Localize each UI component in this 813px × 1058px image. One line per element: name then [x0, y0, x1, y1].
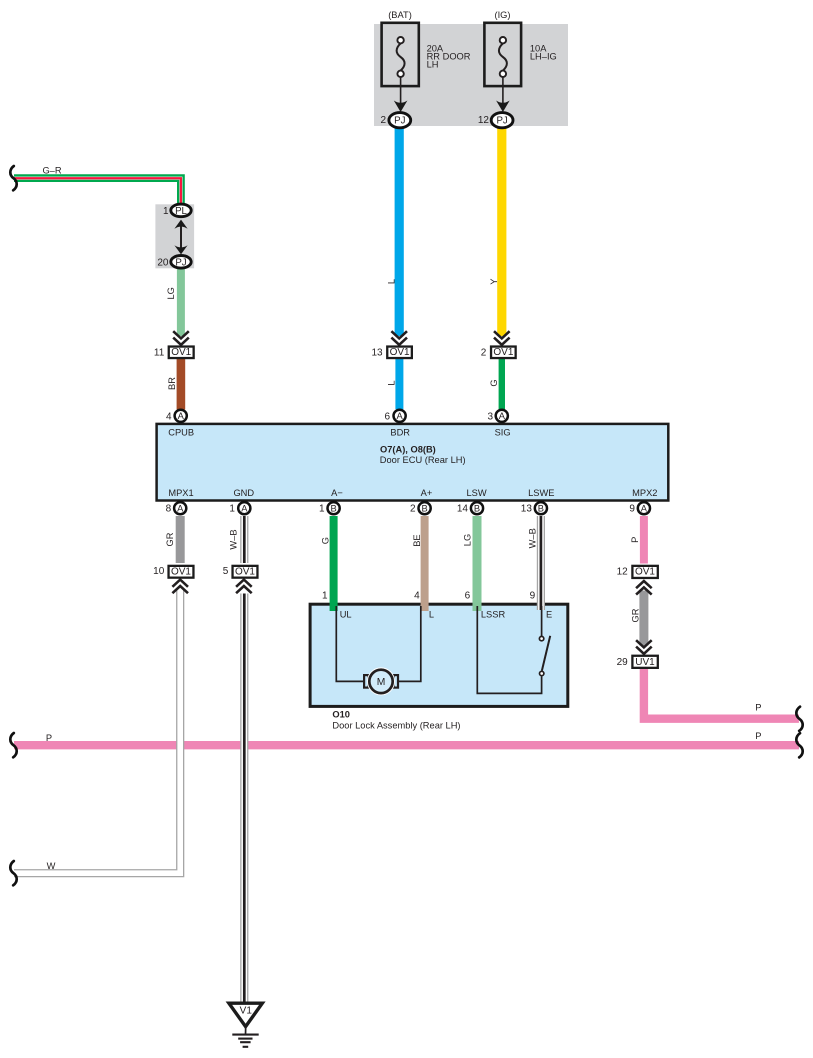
svg-text:P: P	[755, 731, 761, 741]
svg-text:E: E	[546, 609, 552, 619]
svg-text:BE: BE	[412, 534, 422, 546]
svg-text:OV1: OV1	[390, 347, 410, 358]
svg-text:2: 2	[481, 347, 487, 358]
svg-text:UV1: UV1	[635, 657, 655, 668]
svg-text:(IG): (IG)	[494, 10, 510, 20]
svg-text:A: A	[641, 504, 648, 514]
svg-text:G–R: G–R	[42, 165, 61, 175]
svg-text:LSSR: LSSR	[481, 609, 506, 619]
svg-text:1: 1	[229, 504, 235, 515]
svg-text:P: P	[630, 537, 640, 543]
svg-text:V1: V1	[240, 1006, 253, 1017]
svg-text:MPX2: MPX2	[632, 488, 657, 498]
svg-text:OV1: OV1	[235, 567, 255, 578]
svg-text:MPX1: MPX1	[168, 488, 193, 498]
svg-text:LSWE: LSWE	[528, 488, 554, 498]
svg-text:2: 2	[380, 115, 386, 126]
svg-text:GND: GND	[233, 488, 254, 498]
svg-text:B: B	[538, 504, 544, 514]
svg-text:Door ECU (Rear LH): Door ECU (Rear LH)	[380, 455, 466, 465]
svg-text:PJ: PJ	[496, 116, 507, 127]
svg-text:9: 9	[629, 504, 635, 515]
svg-text:LSW: LSW	[467, 488, 487, 498]
svg-text:12: 12	[617, 567, 629, 578]
svg-text:14: 14	[457, 504, 469, 515]
svg-text:W–B: W–B	[228, 529, 238, 549]
svg-text:GR: GR	[630, 608, 640, 622]
svg-text:4: 4	[414, 591, 420, 602]
svg-text:A+: A+	[421, 488, 433, 498]
svg-text:BR: BR	[167, 377, 177, 390]
svg-text:P: P	[755, 703, 761, 713]
svg-text:G: G	[489, 379, 499, 386]
svg-text:10: 10	[153, 566, 165, 577]
svg-text:8: 8	[166, 504, 172, 515]
svg-text:CPUB: CPUB	[168, 427, 194, 437]
svg-text:O7(A), O8(B): O7(A), O8(B)	[380, 445, 436, 455]
svg-text:1: 1	[322, 591, 328, 602]
svg-text:PJ: PJ	[175, 257, 186, 268]
svg-text:OV1: OV1	[493, 347, 513, 358]
svg-text:OV1: OV1	[635, 567, 655, 578]
svg-text:L: L	[387, 279, 397, 284]
svg-text:LH: LH	[427, 60, 439, 70]
svg-text:A: A	[396, 411, 403, 421]
svg-text:B: B	[330, 504, 336, 514]
svg-text:A−: A−	[331, 488, 343, 498]
svg-text:Door Lock Assembly (Rear LH): Door Lock Assembly (Rear LH)	[332, 721, 460, 731]
svg-text:(BAT): (BAT)	[388, 10, 412, 20]
svg-text:B: B	[421, 504, 427, 514]
svg-text:A: A	[178, 411, 185, 421]
svg-text:PJ: PJ	[394, 116, 405, 127]
svg-text:B: B	[474, 504, 480, 514]
svg-text:6: 6	[465, 591, 471, 602]
svg-text:2: 2	[410, 504, 416, 515]
svg-text:W–B: W–B	[528, 528, 538, 548]
svg-text:OV1: OV1	[171, 567, 191, 578]
svg-text:11: 11	[154, 347, 165, 358]
svg-text:PL: PL	[175, 206, 187, 217]
svg-text:13: 13	[521, 504, 533, 515]
svg-text:1: 1	[163, 206, 169, 217]
svg-text:GR: GR	[165, 532, 175, 546]
svg-text:G: G	[321, 537, 331, 544]
svg-text:6: 6	[384, 411, 390, 422]
svg-text:SIG: SIG	[495, 427, 511, 437]
svg-text:O10: O10	[332, 709, 350, 719]
svg-text:20: 20	[157, 258, 169, 269]
svg-text:A: A	[241, 504, 248, 514]
svg-text:4: 4	[166, 411, 172, 422]
svg-text:W: W	[47, 861, 56, 871]
svg-text:5: 5	[223, 566, 229, 577]
svg-text:M: M	[377, 677, 386, 688]
svg-text:1: 1	[319, 504, 325, 515]
svg-text:UL: UL	[340, 609, 352, 619]
svg-text:9: 9	[530, 591, 536, 602]
svg-text:LG: LG	[166, 287, 176, 299]
svg-text:P: P	[46, 733, 52, 743]
svg-text:13: 13	[371, 347, 383, 358]
svg-text:LG: LG	[463, 534, 473, 546]
svg-text:3: 3	[487, 411, 493, 422]
svg-text:29: 29	[617, 657, 629, 668]
svg-text:L: L	[429, 609, 434, 619]
svg-text:L: L	[387, 380, 397, 385]
svg-text:BDR: BDR	[390, 427, 410, 437]
svg-text:Y: Y	[489, 278, 499, 284]
svg-text:12: 12	[478, 115, 490, 126]
svg-text:OV1: OV1	[171, 347, 191, 358]
svg-text:A: A	[499, 411, 506, 421]
svg-text:A: A	[177, 504, 184, 514]
svg-text:LH–IG: LH–IG	[530, 52, 557, 62]
